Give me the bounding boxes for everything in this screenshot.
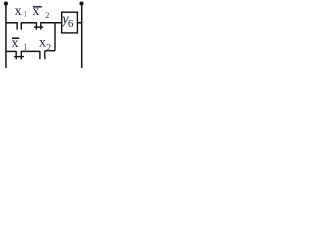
contact x1 (normally-open) right prong	[20, 22, 22, 30]
background	[0, 0, 89, 68]
wire relay box to right rail	[77, 22, 81, 24]
wire bottom branch: rail to contact x1bar	[6, 50, 16, 52]
wire left bus rail	[5, 4, 7, 68]
contact x1bar (normally-closed) right prong	[20, 51, 22, 60]
label x1 overbar	[12, 37, 19, 39]
svg-text:1: 1	[23, 10, 27, 19]
svg-text:1: 1	[23, 42, 28, 52]
svg-text:2: 2	[45, 10, 49, 20]
wire riser horizontal to contact x2	[45, 50, 55, 52]
contact x2bar (normally-closed) left prong	[35, 22, 37, 30]
svg-text:x: x	[39, 35, 46, 50]
wire bottom branch: x1bar to x2	[21, 50, 40, 52]
svg-text:6: 6	[68, 18, 74, 30]
node A (left bus terminal dot)	[4, 2, 8, 6]
node B (right bus terminal dot)	[79, 1, 83, 5]
label x2 overbar	[33, 6, 42, 8]
svg-text:x: x	[12, 36, 19, 51]
contact x2 (normally-open) right prong	[44, 51, 46, 60]
wire top branch: x1 to x2bar	[21, 22, 36, 24]
relay coil box y6	[62, 12, 78, 33]
svg-text:x: x	[32, 4, 39, 19]
wire right bus rail	[81, 4, 83, 69]
contact x2bar closed-bar	[34, 26, 43, 28]
contact x1bar closed-bar	[14, 56, 24, 58]
svg-text:x: x	[15, 4, 22, 19]
contact x1bar (normally-closed) left prong	[15, 51, 17, 60]
contact x1 (normally-open) left prong	[16, 22, 18, 30]
svg-text:2: 2	[46, 44, 51, 54]
contact x2 (normally-open) left prong	[39, 51, 41, 59]
contact x2bar (normally-closed) right prong	[40, 22, 42, 30]
wire riser from bottom branch (junction at x=55)	[54, 23, 56, 51]
wire top branch: x2bar to relay box	[41, 22, 62, 24]
wire top branch: rail to contact x1	[6, 22, 17, 24]
